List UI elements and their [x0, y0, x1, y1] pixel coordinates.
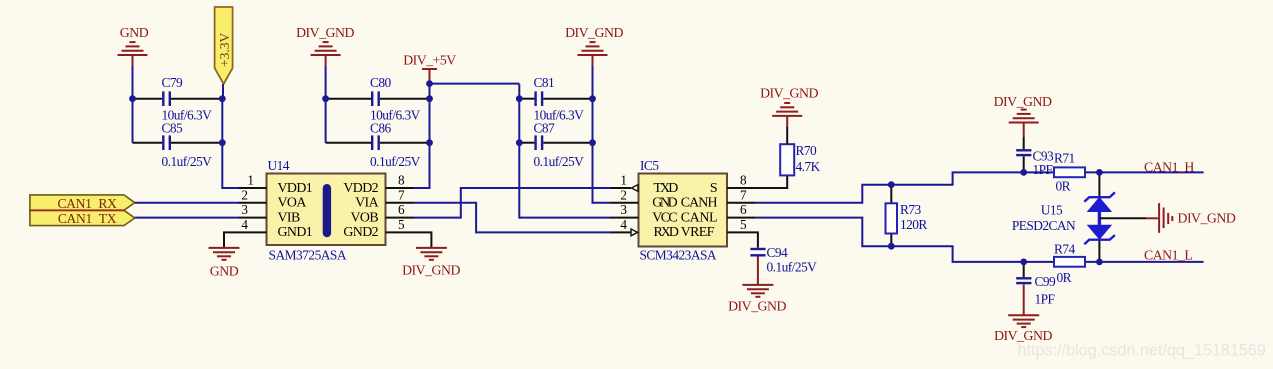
svg-text:0R: 0R	[1056, 179, 1071, 194]
junction (C81 right)	[589, 95, 596, 102]
svg-text:S: S	[710, 181, 717, 196]
svg-text:4: 4	[620, 217, 627, 232]
pin 8 S	[727, 187, 755, 189]
svg-text:SAM3725ASA: SAM3725ASA	[269, 248, 347, 263]
svg-text:CANL: CANL	[681, 210, 717, 225]
pin 7 VIA	[386, 202, 414, 204]
pin 8 VDD2	[386, 187, 414, 189]
wire U14 pin 6 VOB to IC5 pin 1 TXD	[414, 188, 611, 218]
svg-text:3: 3	[241, 202, 248, 217]
ground DIV_GND (below C99)	[1008, 315, 1039, 327]
svg-text:VIA: VIA	[355, 196, 378, 211]
svg-text:0.1uf/25V: 0.1uf/25V	[370, 154, 421, 169]
capacitor C87	[519, 135, 592, 150]
wire +3.3V column down to U14 pin 1	[222, 84, 239, 188]
svg-text:DIV_GND: DIV_GND	[728, 298, 786, 313]
ground DIV_GND earth symbol (right)	[1159, 203, 1172, 233]
svg-text:CAN1RX: CAN1RX	[57, 196, 117, 211]
svg-text:7: 7	[740, 187, 747, 202]
svg-text:7: 7	[398, 187, 405, 202]
svg-text:5: 5	[740, 217, 747, 232]
svg-text:C81: C81	[534, 75, 555, 90]
junction (C93 / CAN1_H)	[1020, 169, 1027, 176]
svg-text:0.1uf/25V: 0.1uf/25V	[162, 154, 213, 169]
capacitor C94	[750, 249, 765, 255]
junction (C80 left)	[322, 95, 329, 102]
op-amp U14 body (isolator SAM3725ASA)	[267, 174, 386, 246]
wire U15 center tap to earth	[1099, 217, 1146, 219]
junction (C80 right)	[426, 95, 433, 102]
resistor R73 (termination)	[886, 185, 898, 247]
svg-text:GND: GND	[210, 264, 239, 279]
svg-text:U15: U15	[1041, 203, 1063, 218]
svg-text:0R: 0R	[1057, 270, 1072, 285]
wire CANL: IC5 pin 6 to CAN1_L rail	[755, 218, 1204, 262]
lower diode cathode bar	[1084, 235, 1115, 244]
svg-text:C85: C85	[162, 121, 184, 136]
svg-text:6: 6	[740, 202, 747, 217]
wire CAN1_TX to U14 pin 3	[135, 217, 239, 219]
pin 6 CANL	[727, 217, 755, 219]
svg-text:2: 2	[620, 187, 627, 202]
svg-text:VCC: VCC	[652, 210, 677, 225]
junction (+5V tee)	[426, 80, 433, 87]
junction (+3.3V, C85)	[219, 139, 226, 146]
svg-text:TXD: TXD	[654, 181, 679, 196]
pin 4 RXD	[611, 231, 632, 233]
svg-text:4: 4	[241, 217, 248, 232]
svg-text:C94: C94	[767, 245, 789, 260]
svg-text:CAN1TX: CAN1TX	[58, 211, 117, 226]
wire DIV_GND column down to IC5 pin 2 GND	[592, 56, 594, 66]
wire DIV_+5V column down to U14 pin 8	[414, 84, 430, 188]
capacitor C81	[519, 91, 592, 106]
ground DIV_GND (below C94)	[742, 285, 773, 297]
svg-text:VOA: VOA	[278, 196, 307, 211]
svg-text:0.1uf/25V: 0.1uf/25V	[534, 154, 585, 169]
capacitor C93	[1016, 123, 1031, 173]
ground GND (top left power ground symbol)	[118, 42, 148, 55]
wire U14 pin 7 VIA to IC5 pin 4 RXD	[414, 203, 611, 233]
svg-text:DIV_GND: DIV_GND	[296, 25, 354, 40]
junction (C87 left)	[516, 139, 523, 146]
svg-text:C87: C87	[534, 121, 556, 136]
wire IC5 pin 8 to R70	[755, 175, 787, 188]
ground GND (below U14 pin 4)	[209, 248, 240, 260]
svg-text:R71: R71	[1054, 151, 1075, 166]
svg-text:1PF: 1PF	[1033, 162, 1053, 177]
svg-text:DIV_+5V: DIV_+5V	[403, 53, 456, 68]
pin 5 VREF	[727, 231, 755, 233]
junction (C86 right)	[426, 139, 433, 146]
svg-text:DIV_GND: DIV_GND	[1178, 211, 1236, 226]
upper diode triangle	[1088, 198, 1110, 211]
svg-text:VIB: VIB	[278, 210, 300, 225]
pin 6 VOB	[386, 217, 414, 219]
junction (U15 / CAN1_H)	[1096, 169, 1103, 176]
ground DIV_GND (top, above C80)	[311, 42, 341, 55]
wire DIV_GND column to C80/C86 left plates	[325, 56, 327, 66]
svg-text:RXD: RXD	[654, 225, 679, 240]
svg-text:GND1: GND1	[278, 225, 313, 240]
svg-text:U14: U14	[268, 158, 290, 173]
resistor R74 (0R series, CAN1_L)	[1054, 257, 1085, 267]
capacitor C85	[133, 135, 223, 150]
port CAN1_RX	[30, 195, 135, 211]
svg-text:CAN1_L: CAN1_L	[1144, 247, 1192, 262]
svg-text:4.7K: 4.7K	[796, 159, 821, 174]
junction (C99 / CAN1_L)	[1020, 259, 1027, 266]
junction (R73 top / CANH)	[888, 181, 895, 188]
wire CAN1_RX to U14 pin 2	[135, 202, 239, 204]
upper diode cathode bar	[1084, 192, 1115, 201]
svg-text:5: 5	[398, 217, 405, 232]
resistor R70	[780, 144, 794, 175]
pin 2 VOA	[239, 202, 267, 204]
svg-text:VDD1: VDD1	[278, 181, 313, 196]
pin 3 VIB	[239, 217, 267, 219]
resistor R71 (0R series, CAN1_H)	[1054, 167, 1085, 177]
pin 3 VCC	[611, 217, 639, 219]
junction (+3.3V, C79)	[219, 95, 226, 102]
pin 7 CANH	[727, 202, 755, 204]
svg-text:DIV_GND: DIV_GND	[994, 94, 1052, 109]
wire CANH: IC5 pin 7 to CAN1_H rail	[755, 172, 1204, 202]
svg-text:R73: R73	[900, 202, 922, 217]
svg-text:VDD2: VDD2	[343, 181, 378, 196]
svg-text:CANH: CANH	[681, 196, 718, 211]
capacitor C99	[1016, 262, 1031, 315]
svg-text:SCM3423ASA: SCM3423ASA	[640, 248, 717, 263]
wire IC5 pin 5 VREF to C94	[755, 232, 758, 247]
capacitor C86	[326, 135, 430, 150]
capacitor C79	[133, 91, 223, 106]
svg-text:1: 1	[620, 173, 627, 188]
junction (C87 right)	[589, 139, 596, 146]
svg-text:DIV_GND: DIV_GND	[402, 263, 460, 278]
lower diode triangle	[1088, 226, 1110, 239]
wire U14 pin 5 to DIV_GND	[414, 232, 432, 247]
ground DIV_GND (above C93)	[1009, 110, 1039, 123]
power symbol DIV_+5V	[422, 69, 437, 84]
svg-text:2: 2	[241, 187, 248, 202]
svg-text:R74: R74	[1054, 242, 1076, 257]
svg-text:C79: C79	[162, 75, 184, 90]
svg-text:GND: GND	[652, 196, 677, 211]
svg-text:8: 8	[398, 173, 405, 188]
power flag +3.3V	[215, 7, 233, 84]
svg-text:DIV_GND: DIV_GND	[760, 86, 818, 101]
port CAN1_TX	[30, 210, 135, 226]
svg-text:+3.3V: +3.3V	[217, 33, 232, 67]
svg-text:GND2: GND2	[343, 225, 378, 240]
svg-text:IC5: IC5	[640, 158, 659, 173]
svg-text:VREF: VREF	[681, 225, 715, 240]
svg-text:VOB: VOB	[350, 210, 378, 225]
wire GND column to C79/C85 left plates	[132, 56, 134, 66]
svg-text:CAN1_H: CAN1_H	[1144, 159, 1194, 174]
svg-text:3: 3	[620, 202, 627, 217]
junction (R73 bottom / CANL)	[888, 243, 895, 250]
svg-text:1PF: 1PF	[1035, 292, 1055, 307]
ground DIV_GND (top, above C81)	[578, 42, 608, 55]
transistor IC5 body (CAN transceiver SCM3423ASA)	[639, 174, 728, 247]
center bar	[1098, 211, 1101, 226]
svg-text:PESD2CAN: PESD2CAN	[1012, 218, 1076, 233]
wire C94 to DIV_GND	[757, 257, 759, 285]
ground DIV_GND (below U14 pin 5)	[416, 248, 447, 260]
svg-text:6: 6	[398, 202, 405, 217]
junction (GND, C79)	[129, 95, 136, 102]
svg-text:DIV_GND: DIV_GND	[565, 25, 623, 40]
svg-text:https://blog.csdn.net/qq_15181: https://blog.csdn.net/qq_15181569	[1018, 342, 1266, 360]
transistor U15 TVS diode pair PESD2CAN	[1084, 172, 1115, 262]
pin 2 GND	[611, 202, 639, 204]
svg-text:R70: R70	[796, 143, 818, 158]
wire port divider	[30, 209, 125, 211]
svg-text:0.1uf/25V: 0.1uf/25V	[767, 260, 818, 275]
svg-text:C86: C86	[370, 121, 392, 136]
pin 5 GND2	[386, 231, 414, 233]
wire U14 pin 4 to GND	[224, 232, 239, 247]
svg-text:1: 1	[247, 173, 254, 188]
pin 1 TXD	[611, 187, 632, 189]
pin 4 GND1	[239, 231, 267, 233]
svg-text:C80: C80	[370, 75, 392, 90]
svg-text:C99: C99	[1035, 274, 1057, 289]
wire C81 column down to IC5 pin 3 VCC	[519, 84, 610, 218]
svg-text:8: 8	[740, 173, 747, 188]
svg-text:120R: 120R	[900, 217, 927, 232]
wire DIV_+5V rail to C81 column	[430, 83, 520, 85]
pin 1 VDD1	[239, 187, 267, 189]
capacitor C80	[326, 91, 430, 106]
junction (C81 left)	[516, 95, 523, 102]
wire R70 to DIV_GND	[786, 127, 788, 144]
ground DIV_GND (above R70)	[772, 103, 802, 116]
svg-text:GND: GND	[120, 25, 149, 40]
junction (U15 / CAN1_L)	[1096, 259, 1103, 266]
